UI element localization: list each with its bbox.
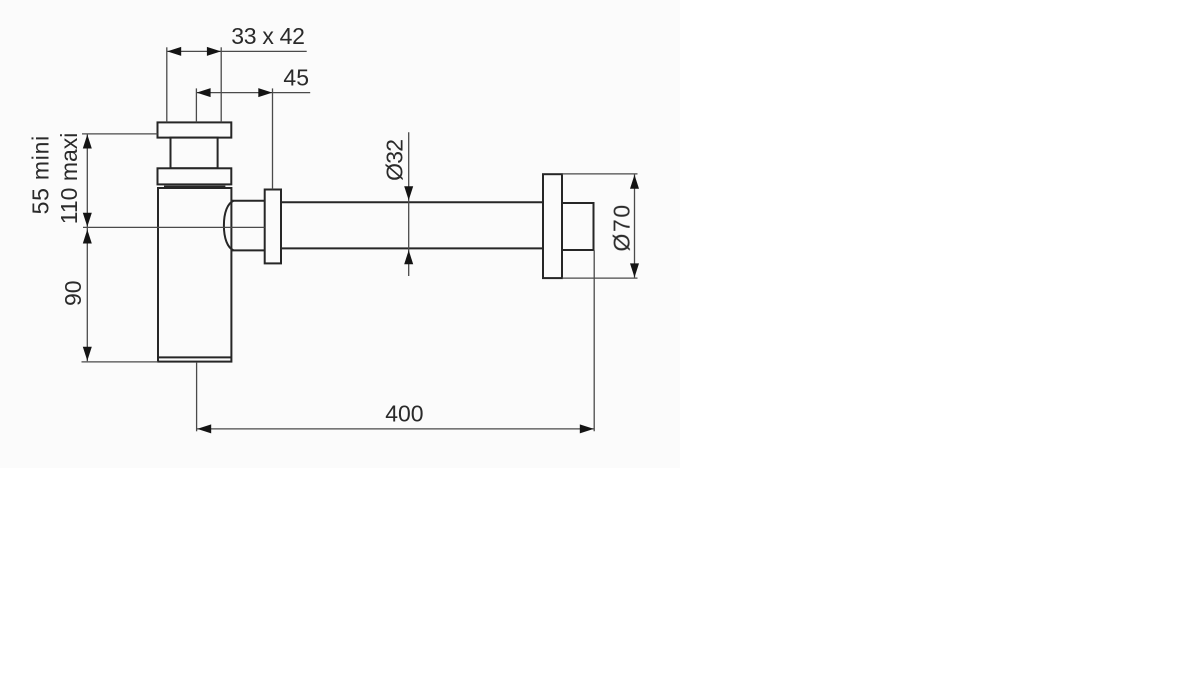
washer line <box>164 185 225 187</box>
dim line 33x42 <box>167 50 307 52</box>
right wall rosette flange <box>543 174 562 278</box>
tick line diameter70 top <box>562 173 638 175</box>
ext line 33x42 right <box>220 47 222 122</box>
wall flange (escutcheon) <box>265 190 281 264</box>
arrow diameter70 down <box>630 263 639 277</box>
arrow 110 down <box>83 213 92 227</box>
trap body bottom inner line <box>158 356 231 358</box>
ext line 400 right <box>593 250 595 431</box>
ext line 45 right (wall flange) <box>272 88 274 189</box>
ext line 45 left (tail centre) <box>195 88 197 122</box>
svg-text:110 maxi: 110 maxi <box>56 133 82 225</box>
svg-text:400: 400 <box>385 401 423 427</box>
svg-text:55 mini: 55 mini <box>28 135 54 214</box>
outlet tube top edge <box>231 200 264 202</box>
vertical dim line 90 <box>86 228 88 361</box>
tick line bottom (90) <box>82 361 159 363</box>
dim line diameter 32 <box>408 132 410 276</box>
tick line top (basin face) <box>82 133 158 135</box>
arrow 45 left <box>197 88 211 97</box>
wall pipe bottom edge <box>281 247 543 249</box>
dim line 45 <box>197 92 311 94</box>
vertical dim line 55/110 <box>86 135 88 228</box>
arrow 45 right <box>258 88 272 97</box>
arrow 90 down <box>83 347 92 361</box>
wall pipe top edge <box>281 201 543 203</box>
trap body (cup) <box>158 188 231 362</box>
dim line 400 <box>197 428 594 430</box>
svg-text:33 x 42: 33 x 42 <box>231 23 304 49</box>
dim line diameter 70 <box>634 175 636 278</box>
ext line 33x42 left <box>166 47 168 122</box>
arrow diameter32 down <box>404 186 413 200</box>
arrow 400 left <box>197 424 211 433</box>
ext line 400 left <box>196 362 198 431</box>
outlet rounded cap arc <box>224 201 234 251</box>
tick line diameter70 bottom <box>562 277 638 279</box>
centreline of horizontal pipe <box>83 226 265 228</box>
arrow 90 up <box>83 230 92 244</box>
drawing canvas (off-white photo area) <box>0 0 680 468</box>
arrow 400 right <box>580 424 594 433</box>
svg-text:Ø70: Ø70 <box>609 203 635 251</box>
locknut (second flange) <box>158 168 232 184</box>
threaded body block <box>171 138 218 169</box>
arrow diameter70 up <box>630 175 639 189</box>
basin nut (top flange) <box>158 122 232 137</box>
outlet tube bottom edge <box>231 249 264 251</box>
svg-text:45: 45 <box>283 65 309 91</box>
arrow 33x42 right <box>207 47 221 56</box>
arrow 55/110 up <box>83 135 92 149</box>
svg-text:90: 90 <box>60 280 86 306</box>
arrow diameter32 up <box>404 250 413 264</box>
right end connector piece <box>562 203 594 250</box>
arrow 33x42 left <box>167 47 181 56</box>
svg-text:Ø32: Ø32 <box>382 140 408 181</box>
